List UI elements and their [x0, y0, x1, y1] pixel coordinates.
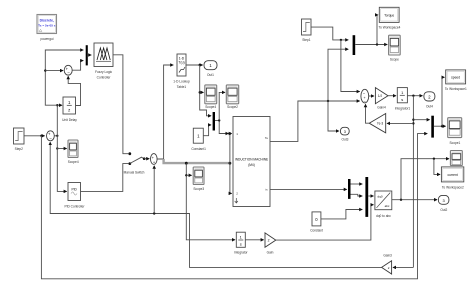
sum junction Sum3	[361, 89, 369, 103]
wire Step1 to Mux3 input 1	[311, 27, 348, 40]
step source Step2	[14, 128, 25, 151]
wire Mux3 out to Scope and Torque	[355, 44, 387, 46]
svg-text:−: −	[67, 71, 70, 76]
wire Mux1 to Fuzzy Logic Controller	[88, 54, 91, 56]
svg-text:Step1: Step1	[302, 38, 311, 42]
svg-text:Integrator: Integrator	[234, 250, 249, 254]
wire up to speed To Workspace1	[442, 77, 444, 126]
wire Demux out1 to Mux5 input 1	[351, 183, 363, 185]
wire speed to Gain2	[387, 122, 413, 124]
wire lookup branch down to Scope4 top and Mux2	[200, 65, 211, 116]
wire machine Te output to Sum3	[270, 101, 360, 141]
wire machine is output to Demux	[270, 188, 347, 190]
svg-text:Table1: Table1	[177, 85, 187, 89]
wire current up and right to Scope5	[401, 159, 449, 200]
wire into Sum2 plus input	[45, 70, 63, 72]
svg-text:Integrator1: Integrator1	[395, 107, 411, 111]
svg-text:abc: abc	[385, 204, 390, 208]
svg-text:−: −	[49, 137, 52, 142]
mux Mux1	[86, 45, 88, 65]
node Te fanout junction	[327, 100, 329, 102]
wire into Scope4 top	[200, 91, 204, 93]
svg-text:dq0 to abc: dq0 to abc	[376, 214, 391, 218]
outport Out3	[340, 127, 349, 141]
to-workspace Torque	[379, 7, 401, 29]
svg-text:Scope: Scope	[390, 57, 399, 61]
wire speed reference long loop (down, bottom, up to Mux Scope1)	[41, 134, 427, 279]
wire Gain4 to Integrator1	[388, 95, 396, 97]
svg-text:s: s	[240, 242, 242, 247]
gain Gain3 (points left)	[382, 254, 392, 274]
svg-text:Controller: Controller	[97, 75, 112, 79]
demux Demux1	[348, 179, 351, 199]
node mux2 output junction	[218, 119, 220, 121]
wire Mux5 out to dq0 block	[368, 195, 373, 197]
mux Mux4 (scope1)	[431, 116, 434, 138]
wire machine input column down	[229, 134, 231, 194]
wire Integrator to Gain	[245, 239, 263, 241]
wire TL down to Sum3 input 1	[341, 40, 360, 92]
svg-text:dq0: dq0	[377, 195, 382, 199]
svg-text:current: current	[447, 173, 457, 177]
svg-text:powergui: powergui	[41, 37, 54, 41]
wire speed to Mux4 input 1	[413, 119, 429, 121]
node ref branch junction	[40, 135, 42, 137]
constant Constant1	[191, 128, 206, 151]
integrator Integrator1	[395, 88, 411, 111]
constant Constant (zero)	[310, 212, 323, 233]
wire error to Scope4	[57, 148, 66, 150]
outport Out4	[424, 92, 435, 109]
node lookup output branch	[199, 64, 201, 66]
svg-text:Fuzzy Logic: Fuzzy Logic	[95, 70, 112, 74]
gain Gain (theta)	[265, 233, 276, 255]
scope Scope4 top	[205, 85, 217, 109]
scope Scope1	[448, 118, 462, 145]
unit delay block	[62, 97, 77, 122]
node unit delay branch	[56, 104, 58, 106]
svg-text:1-D Lookup: 1-D Lookup	[173, 80, 190, 84]
svg-text:Scope1: Scope1	[449, 141, 460, 145]
svg-text:To Workspace2: To Workspace2	[442, 185, 464, 189]
gain Gain2 friction (points left)	[369, 114, 386, 133]
node speed junction	[412, 95, 414, 97]
svg-text:speed: speed	[451, 75, 460, 79]
node theta tap junction	[185, 162, 188, 165]
wire error into Unit Delay	[57, 104, 62, 106]
node speed workspace branch	[441, 125, 443, 127]
svg-text:3: 3	[344, 130, 346, 134]
svg-text:Out4: Out4	[426, 105, 433, 109]
node scope4 branch	[56, 147, 58, 149]
mux Mux3 (torque scope)	[353, 35, 356, 55]
sum junction Sum4	[151, 154, 158, 165]
fuzzy logic controller block	[94, 43, 113, 79]
wire up to Scope2	[219, 92, 225, 120]
wire Integrator1 (speed) to Out4	[407, 95, 422, 97]
svg-text:7e-3: 7e-3	[377, 122, 384, 126]
dq0 to abc transformation block	[375, 191, 392, 218]
svg-text:PID: PID	[72, 188, 78, 192]
wire Step2 to Sum1	[24, 135, 45, 137]
svg-text:Step2: Step2	[15, 147, 24, 151]
node branch to Sum2	[44, 69, 46, 71]
integrator theta	[234, 232, 249, 254]
step source Step1	[302, 19, 312, 42]
manual switch	[124, 152, 146, 174]
svg-text:(M4): (M4)	[248, 163, 255, 167]
node current branch junction	[400, 199, 402, 201]
wire into Scope3	[186, 174, 191, 176]
svg-text:Unit Delay: Unit Delay	[62, 118, 77, 122]
powergui block	[37, 15, 57, 42]
wire Manual Switch to Sum4	[144, 158, 149, 160]
scope Scope	[389, 35, 401, 61]
lookup table 1-D Lookup Table1	[173, 54, 190, 89]
svg-text:Constant1: Constant1	[191, 147, 206, 151]
wire Mux2 output to machine input 1 and Scope2	[215, 120, 229, 133]
svg-text:Scope3: Scope3	[193, 187, 204, 191]
wire speed down right column	[412, 96, 414, 268]
wire Sum2 output to Mux1 input 2	[72, 61, 83, 71]
wire Sum1 output to error node	[54, 135, 57, 137]
wire Sum4 output with branch up to Lookup Table	[157, 65, 173, 159]
svg-text:Out1: Out1	[207, 73, 214, 77]
svg-text:Scope4: Scope4	[205, 105, 216, 109]
scope Scope3	[193, 167, 204, 191]
svg-text:To Workspace1: To Workspace1	[445, 87, 467, 91]
wire PID output up to Manual Switch lower input	[81, 164, 129, 192]
wire Gain3 output left and up to speed feedback rail	[50, 142, 381, 267]
wire Lookup out to Out1	[186, 64, 203, 66]
svg-text:Gain4: Gain4	[377, 106, 386, 110]
wire Sum3 to Gain4	[369, 95, 374, 97]
outport Out2	[438, 195, 449, 211]
svg-text:INDUCTION MACHINE: INDUCTION MACHINE	[235, 158, 268, 162]
node scope3 branch	[185, 174, 187, 176]
node TL branch junction	[340, 39, 342, 41]
wire Gain2 up to Sum3 bottom	[366, 104, 370, 123]
node speed to Scope1 mux branch	[412, 119, 414, 121]
node machine input1 junction	[229, 132, 232, 135]
svg-text:z: z	[68, 107, 70, 112]
wire error up to UnitDelay input level	[56, 105, 58, 136]
node error junction	[56, 135, 58, 137]
node current workspace branch	[433, 158, 435, 160]
svg-text:Manual Switch: Manual Switch	[124, 171, 145, 175]
wire Te down to Out3	[328, 101, 339, 131]
svg-text:PID Controller: PID Controller	[64, 205, 85, 209]
node speed to Gain2 branch	[412, 122, 414, 124]
mux Mux5 (dq0 input)	[365, 177, 368, 217]
svg-text:Scope4: Scope4	[68, 160, 79, 164]
sum junction Sum2	[64, 65, 72, 75]
node scope4a branch	[199, 91, 201, 93]
scope Scope5	[450, 151, 462, 166]
wire theta tap down to Scope3 and Integrator	[186, 163, 235, 240]
svg-text:Gain3: Gain3	[383, 254, 392, 258]
wire Gain (theta) to dq0 sin_cos input	[276, 205, 374, 240]
wire Unit Delay output to Sum2 minus input	[68, 76, 80, 105]
wire up into Sum4 bottom	[153, 166, 155, 214]
wire bus sum4 output thick gray to machine input column	[164, 159, 230, 163]
svg-text:Constant: Constant	[310, 229, 323, 233]
svg-text:To Workspace4: To Workspace4	[379, 26, 401, 30]
svg-text:Ts = 5e-05 s: Ts = 5e-05 s	[38, 23, 56, 27]
gain Gain4 (1/J)	[375, 88, 388, 110]
svg-text:Scope2: Scope2	[227, 105, 238, 109]
svg-text:s: s	[401, 97, 403, 102]
svg-text:Te: Te	[265, 136, 269, 140]
wire error left-up to Sum2 and Mux1 input 1	[45, 50, 83, 105]
wire arrow into machine input 2	[230, 192, 232, 194]
wire down into current To Workspace2	[434, 159, 440, 175]
to-workspace speed	[445, 70, 467, 91]
wire up to Torque workspace	[376, 15, 379, 45]
PID controller block	[64, 183, 85, 209]
svg-text:Gain: Gain	[267, 250, 274, 254]
wire Constant1 to Mux2 input 2	[203, 125, 211, 136]
svg-text:2: 2	[268, 239, 270, 243]
scope Scope4 (error)	[68, 140, 79, 164]
to-workspace current	[441, 167, 464, 190]
wire Mux4 output to Scope1	[434, 125, 446, 127]
wire dq0 output to Out2	[392, 199, 437, 201]
node sum4 feedback tap	[153, 212, 155, 214]
node torque branch	[376, 43, 378, 45]
wire Demux out2 to Mux5 input 2	[351, 194, 363, 196]
svg-text:1/J: 1/J	[378, 94, 383, 98]
wire arrow into machine input 1	[230, 133, 232, 135]
wire Constant to Mux5 input 3	[321, 210, 362, 219]
svg-text:Out3: Out3	[342, 137, 349, 141]
wire error down to PID input	[57, 136, 66, 192]
wire Te up to Mux3 input 2	[328, 49, 348, 101]
outport Out1	[204, 61, 217, 77]
mux Mux2	[213, 112, 215, 131]
svg-text:Torque: Torque	[384, 13, 394, 17]
wire Fuzzy output down to Manual Switch upper input	[113, 55, 128, 154]
svg-text:Out2: Out2	[440, 208, 447, 212]
svg-text:T(u): T(u)	[178, 61, 184, 65]
svg-text:Discrete,: Discrete,	[40, 18, 54, 22]
sum junction Sum1	[47, 131, 55, 142]
wire speed into Gain3	[393, 266, 413, 268]
scope Scope2	[226, 85, 238, 109]
node bus to machine column junction	[229, 162, 232, 165]
induction machine block	[233, 117, 270, 207]
